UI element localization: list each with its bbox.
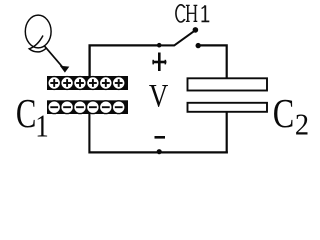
arrow from Q to C1 plate bbox=[44, 46, 69, 73]
capacitor C1 negative plate bbox=[47, 100, 128, 114]
capacitor C2 bottom plate bbox=[188, 103, 268, 112]
switch CH1 arm (open) bbox=[174, 30, 196, 46]
svg-text:C: C bbox=[273, 90, 295, 136]
wire top-left segment bbox=[90, 45, 159, 76]
wire switch throw stub bbox=[159, 44, 174, 46]
capacitor C1 positive plate bbox=[47, 76, 128, 90]
svg-text:1: 1 bbox=[35, 107, 49, 143]
junction node dot (bottom, meter minus) bbox=[157, 149, 162, 154]
label CH1 bbox=[176, 5, 209, 22]
switch arm end dot bbox=[193, 27, 199, 33]
svg-text:V: V bbox=[149, 79, 169, 115]
switch pole node dot bbox=[157, 43, 162, 48]
label C2 bbox=[273, 90, 309, 141]
wire left lower segment bbox=[88, 114, 90, 154]
label minus (meter negative) bbox=[155, 136, 166, 139]
charge label Q bbox=[25, 15, 51, 52]
label V bbox=[149, 79, 169, 115]
label C1 bbox=[16, 90, 49, 143]
wire top-right segment bbox=[201, 45, 227, 77]
label plus (meter positive) bbox=[152, 53, 166, 72]
svg-text:2: 2 bbox=[295, 107, 309, 142]
svg-text:C: C bbox=[16, 90, 37, 136]
wire bottom segment bbox=[89, 151, 228, 153]
wire right lower segment bbox=[226, 113, 228, 154]
switch right terminal dot bbox=[196, 43, 201, 48]
capacitor C2 top plate bbox=[188, 78, 268, 90]
